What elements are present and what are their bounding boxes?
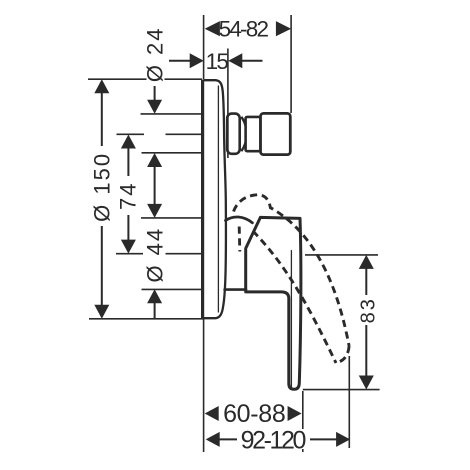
svg-text:Ø 44: Ø 44: [143, 227, 168, 283]
svg-text:Ø 150: Ø 150: [89, 152, 114, 222]
svg-text:92-120: 92-120: [241, 427, 306, 455]
svg-text:83: 83: [357, 297, 379, 323]
svg-text:74: 74: [116, 181, 141, 209]
svg-text:15: 15: [206, 49, 229, 74]
svg-text:Ø 24: Ø 24: [143, 26, 168, 82]
svg-text:60-88: 60-88: [223, 400, 285, 428]
svg-text:54-82: 54-82: [219, 16, 269, 41]
